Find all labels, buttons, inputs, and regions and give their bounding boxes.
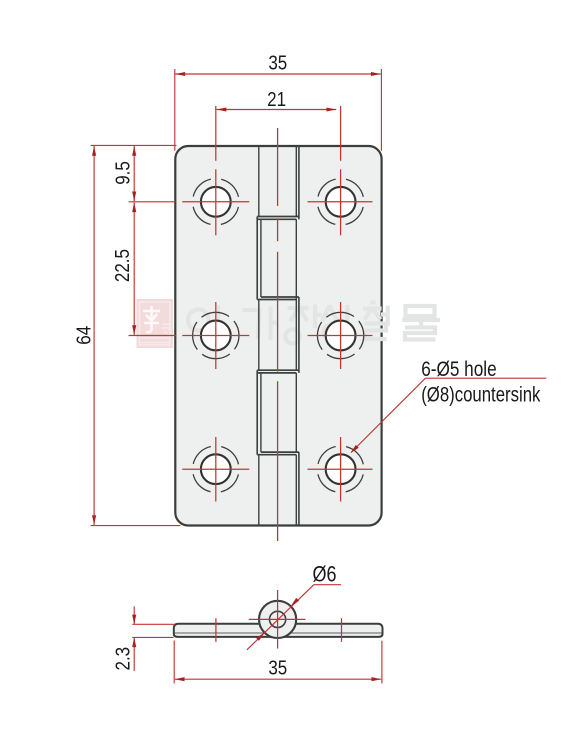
char 철 — [363, 303, 381, 320]
watermark hangul text (이가장식철물) — [188, 303, 440, 344]
dimension 35 (top) — [175, 51, 382, 151]
char 물 — [406, 306, 435, 316]
section 4 left double edge — [256, 370, 258, 455]
bar inner thickness line — [175, 632, 383, 634]
svg-text:22.5: 22.5 — [110, 249, 133, 282]
svg-text:(Ø8)countersink: (Ø8)countersink — [421, 384, 541, 407]
Ø6 leader — [247, 563, 341, 650]
knuckle strip (hinge leaf joint) — [257, 146, 299, 526]
svg-text:64: 64 — [72, 326, 95, 345]
dimension 21 — [217, 88, 337, 112]
svg-text:2.3: 2.3 — [111, 647, 134, 671]
section 2 left double edge — [256, 217, 258, 300]
section 3 right double edge — [295, 297, 297, 370]
hole mid-left — [182, 302, 249, 369]
hole top-left — [182, 106, 249, 235]
hinge plate body (top view) — [175, 146, 381, 526]
section 1 left edge — [258, 146, 260, 217]
section 4 right edge — [295, 373, 297, 452]
section 5 right double edge — [295, 455, 297, 526]
svg-text:Ø6: Ø6 — [312, 563, 336, 587]
dimension 35 (bottom) — [174, 641, 382, 684]
section 2 right edge — [295, 219, 297, 297]
section 3 left edge — [258, 300, 260, 371]
hole top-right — [308, 106, 373, 235]
barrel crosshair — [249, 590, 306, 649]
profile bar — [174, 624, 383, 637]
svg-text:35: 35 — [268, 51, 287, 74]
hinge pin centerline (red, dashed) — [277, 128, 279, 541]
knuckle boundary 2 — [261, 296, 299, 298]
hole position tick left — [215, 618, 217, 642]
char 장 — [288, 308, 309, 322]
knuckle boundary 1 — [257, 216, 299, 218]
knuckle barrel circle — [259, 601, 296, 638]
hole mid-right — [308, 302, 373, 369]
char 이 — [188, 310, 209, 331]
section 5 left edge — [258, 455, 260, 526]
watermark stamp (red seal) — [137, 299, 174, 348]
leader 6-Ø5 hole / countersink — [349, 357, 546, 455]
knuckle boundary 3 — [257, 369, 299, 371]
section 1 right double edge — [295, 146, 297, 217]
svg-text:6-Ø5 hole: 6-Ø5 hole — [421, 357, 496, 381]
dimension 22.5 — [110, 202, 176, 335]
pin hole circle — [270, 611, 286, 627]
hole bottom-left — [182, 437, 249, 502]
svg-text:9.5: 9.5 — [111, 161, 134, 185]
dimension 64 (left) — [72, 145, 180, 525]
hole position tick right — [341, 618, 343, 642]
dimension 2.3 — [111, 606, 175, 671]
knuckle boundary 4 — [261, 451, 299, 453]
svg-text:21: 21 — [267, 88, 286, 111]
dimension 9.5 — [111, 146, 175, 202]
hole bottom-right — [308, 437, 373, 502]
char 가 — [242, 310, 259, 339]
svg-text:35: 35 — [268, 656, 287, 679]
char 식 — [322, 306, 338, 322]
